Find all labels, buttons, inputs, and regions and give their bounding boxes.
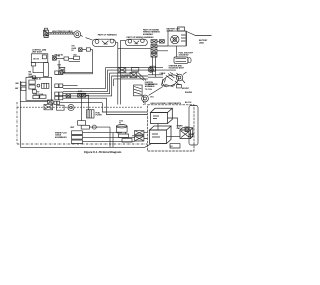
svg-text:UNIT ASSY: UNIT ASSY	[32, 51, 43, 54]
wire long feed to starter	[106, 67, 164, 69]
hv bottom terminal	[170, 144, 180, 148]
dashed fuel line	[17, 106, 143, 108]
svg-text:R7: R7	[37, 91, 39, 93]
resistor R1 hatched	[134, 85, 143, 96]
wire lower row	[69, 60, 80, 62]
label spark plug	[189, 133, 196, 138]
hv internal wire 1	[168, 118, 178, 128]
wire studs to hv box	[132, 133, 147, 139]
panel lamp	[37, 84, 40, 87]
harness connector pair	[78, 93, 86, 97]
svg-text:TO COIL: TO COIL	[145, 89, 153, 91]
connector block grid	[151, 40, 168, 57]
wire drop right 1	[109, 127, 111, 147]
svg-text:ASSEMBLIES: ASSEMBLIES	[55, 136, 67, 139]
labels right of resistor	[145, 82, 155, 91]
small comp on row	[74, 56, 80, 59]
svg-text:FILTER: FILTER	[96, 115, 103, 117]
fuel solenoid body	[174, 57, 191, 63]
label spark plug cables	[55, 131, 67, 138]
labels left lugs	[15, 83, 19, 90]
svg-text:CR1: CR1	[150, 97, 154, 99]
harness connector oval 2	[126, 39, 148, 46]
wire alternator to edge	[187, 32, 212, 36]
hv transformer lower 3d	[150, 126, 172, 144]
ground drop	[57, 60, 61, 67]
panel module 1	[29, 80, 35, 84]
svg-text:BLOCK: BLOCK	[185, 102, 192, 104]
control box lower lug	[31, 63, 35, 66]
connector pair 5	[54, 101, 102, 104]
wire plug 1	[83, 132, 123, 134]
dashed boundary to hv box	[143, 96, 145, 105]
left lug 2	[21, 87, 26, 90]
label oil pressure switch	[121, 75, 130, 79]
svg-text:ASSEMBLY: ASSEMBLY	[143, 33, 154, 36]
left lug 1	[21, 82, 26, 85]
label terminal blocks	[72, 46, 77, 52]
spark plug cable box 1	[72, 131, 83, 135]
connector ring on starter wire	[148, 67, 153, 72]
ground stud under panel 1	[48, 100, 54, 104]
inline stud on dashed line	[44, 104, 53, 110]
ignition coil can	[117, 125, 128, 134]
panel module 2	[29, 85, 35, 89]
spark plug cap P1	[43, 28, 48, 37]
bottom bus wire	[20, 143, 166, 147]
wire feed hv 1	[63, 98, 147, 114]
label ground lead	[199, 39, 208, 44]
terminal board TB1	[33, 63, 48, 77]
svg-text:E2: E2	[72, 50, 74, 52]
panel lower module 1	[33, 95, 39, 98]
svg-text:PLUG: PLUG	[189, 136, 194, 138]
hv transformer upper 3d	[151, 108, 173, 123]
wire drop right 2	[112, 133, 114, 148]
spark plug cable box 2	[72, 136, 83, 140]
alternator body G1	[168, 27, 187, 46]
hv internal wire 3	[157, 124, 159, 131]
spark gap unit 3d	[180, 128, 193, 139]
wire bundle elbow 1	[63, 68, 106, 89]
inline fitting	[57, 105, 65, 110]
relay stud	[53, 57, 57, 60]
wire relay row 1	[56, 58, 64, 60]
dash-dot frame bottom	[17, 143, 147, 145]
connector pair 4	[55, 96, 63, 100]
svg-text:ENGINE: ENGINE	[185, 92, 193, 94]
svg-text:SOLENOID: SOLENOID	[179, 55, 190, 57]
hv internal wire 2	[167, 136, 181, 138]
svg-text:RELAY K1: RELAY K1	[55, 53, 64, 56]
engine block outline	[189, 106, 198, 146]
wire starter feed 3	[148, 76, 163, 78]
wire grid down to starter	[153, 57, 156, 77]
wire bundle elbow 3	[63, 73, 134, 94]
wire bus to generator	[118, 47, 151, 49]
stud pair right 2	[135, 136, 144, 141]
label battery charging alternator	[167, 27, 181, 32]
wire relay row 2	[69, 58, 74, 60]
control panel box	[26, 77, 52, 100]
svg-text:Figure 8-1. Pictorial Diagram.: Figure 8-1. Pictorial Diagram.	[84, 150, 122, 154]
label spark gap	[177, 125, 184, 130]
wire ignition cable braid	[49, 33, 74, 34]
wire connector down	[81, 97, 83, 121]
dash-dot frame vertical	[16, 102, 18, 144]
wire branch to filter	[86, 95, 89, 109]
wire bundle elbow 2	[63, 70, 176, 91]
connector pair 1	[55, 71, 93, 75]
terminal box A	[79, 48, 83, 52]
label engine wiring harness	[143, 28, 161, 35]
svg-text:SWITCH: SWITCH	[121, 77, 129, 79]
wire box A to B	[82, 49, 86, 51]
control box body	[31, 54, 48, 63]
stud pair mid	[130, 72, 146, 81]
label TB column	[28, 72, 33, 78]
wire oval1 to bundle	[116, 43, 118, 105]
spark plug dark	[185, 127, 189, 132]
svg-text:FUSE F1 SW: FUSE F1 SW	[33, 94, 43, 96]
svg-text:LEAD: LEAD	[199, 41, 205, 44]
wire starter feed 2	[148, 74, 163, 76]
terminal box B	[86, 48, 90, 51]
wire plug 2	[83, 136, 135, 138]
svg-text:PART OF HARNESS: PART OF HARNESS	[98, 34, 118, 37]
harness connector oval 1	[93, 39, 116, 46]
svg-text:MOUNT: MOUNT	[182, 88, 190, 90]
stud left of connector	[63, 94, 71, 98]
fitting ring top right	[142, 95, 149, 105]
label starter lower left	[148, 83, 158, 88]
inline ring	[68, 104, 74, 110]
wire bundle elbow 5	[114, 79, 148, 86]
connector pair 2	[55, 84, 78, 88]
wire plug 3	[83, 141, 135, 143]
inline box on wire	[64, 57, 69, 60]
svg-text:ASSY: ASSY	[145, 85, 151, 88]
connector shield ring	[74, 31, 93, 40]
svg-text:CABLE: CABLE	[160, 72, 167, 75]
wire starter to fitting	[149, 87, 163, 96]
wire unit right	[89, 126, 110, 128]
wire alternator down to solenoid	[176, 46, 178, 57]
fuel filter hatched	[87, 110, 95, 118]
wire loop harness	[61, 50, 93, 74]
label ignition coil T1	[119, 120, 124, 124]
solenoid lower body	[78, 121, 86, 126]
wire under panel	[20, 101, 48, 103]
control box module 2	[42, 55, 46, 59]
panel top stud	[32, 76, 35, 79]
svg-text:CB1 S1: CB1 S1	[33, 58, 39, 60]
ring on unit wire	[92, 125, 96, 129]
tiny stud on starter	[177, 85, 182, 88]
label fuel filter	[96, 112, 103, 116]
label starter assembly	[169, 64, 185, 69]
relay row boxes K row	[118, 66, 156, 72]
coil terminal box 2	[122, 139, 132, 142]
ignition unit box	[81, 125, 89, 129]
starter motor assembly	[161, 72, 187, 88]
wire left drop	[19, 81, 21, 147]
panel mid box	[32, 90, 36, 93]
hv dashed enclosure	[147, 105, 194, 151]
stud pair right 1	[135, 130, 144, 135]
wire oval2 down	[121, 40, 126, 104]
junction box at loop left	[59, 68, 65, 73]
panel meter block	[42, 83, 49, 88]
coil terminal box 1	[119, 134, 129, 138]
spark plug cable box 3	[72, 140, 83, 144]
label control box	[32, 48, 46, 53]
connector pair 3	[55, 92, 63, 96]
svg-text:E1: E1	[171, 146, 173, 148]
panel lower module 2	[40, 95, 46, 98]
svg-text:PART OF WIRING HARNESS: PART OF WIRING HARNESS	[127, 36, 155, 39]
svg-text:SOLENOID ASSY: SOLENOID ASSY	[169, 67, 185, 70]
wire feed hv 2	[102, 103, 147, 112]
wire bundle elbow 4	[63, 76, 148, 96]
